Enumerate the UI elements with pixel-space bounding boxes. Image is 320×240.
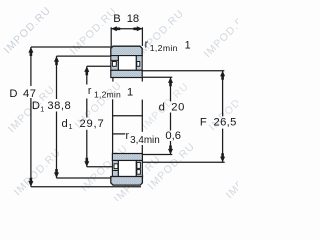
svg-text:38,8: 38,8 [47,100,71,112]
svg-text:D: D [32,100,40,112]
svg-text:r: r [126,130,130,142]
svg-text:29,7: 29,7 [80,118,105,130]
svg-text:47: 47 [23,88,36,100]
svg-text:1,2min: 1,2min [150,43,178,53]
svg-text:18: 18 [127,13,139,25]
svg-text:3,4min: 3,4min [130,135,160,146]
svg-text:B: B [113,13,120,25]
svg-text:1: 1 [69,122,73,131]
svg-text:1: 1 [127,87,133,99]
svg-text:r: r [88,85,92,97]
svg-text:1,2min: 1,2min [94,90,121,100]
svg-text:0,6: 0,6 [165,130,181,142]
svg-text:D: D [9,88,17,100]
svg-text:d: d [159,102,165,114]
svg-text:F: F [200,116,207,128]
svg-text:20: 20 [171,102,185,114]
svg-text:26,5: 26,5 [214,116,237,128]
svg-text:1: 1 [185,40,191,52]
svg-text:1: 1 [40,105,44,114]
svg-text:d: d [62,118,68,130]
svg-text:r: r [145,38,149,50]
